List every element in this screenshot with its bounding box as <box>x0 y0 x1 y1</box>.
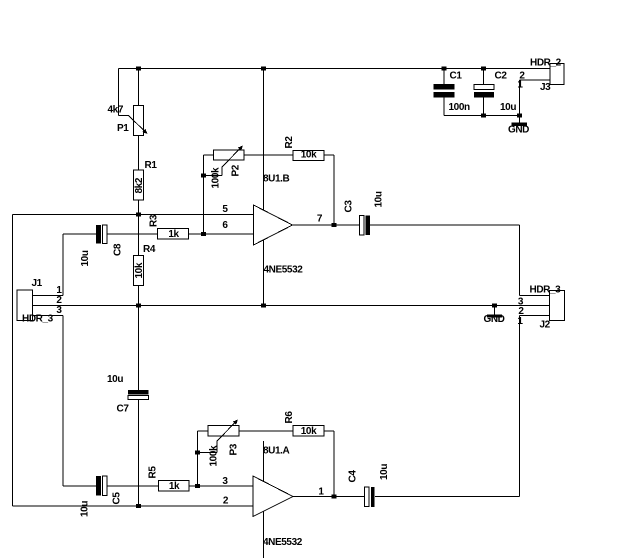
wire C1 bottom stub <box>443 98 445 116</box>
wire J3 pin1 drop to ground <box>519 80 521 123</box>
J2 pin 3 label <box>518 297 524 308</box>
resistor R2 <box>284 136 324 161</box>
svg-text:100n: 100n <box>449 102 470 113</box>
wire P3 to R6 <box>239 430 293 432</box>
wire R1 bottom to R4 top <box>138 200 140 256</box>
J2 pin 1 label <box>517 316 523 327</box>
J2 pin 2 label <box>518 306 524 317</box>
wire C5 to R5 <box>108 485 159 487</box>
junction top rail / C2 <box>481 66 486 70</box>
junction top rail / U1.B power <box>261 66 266 70</box>
junction pin2 wire / C7 <box>136 504 141 508</box>
pin 5 label <box>222 204 228 215</box>
svg-text:C7: C7 <box>117 404 130 415</box>
svg-text:P1: P1 <box>117 123 129 134</box>
svg-text:C1: C1 <box>450 71 463 82</box>
resistor R5 <box>148 466 190 492</box>
wire C4 to right corner <box>375 496 520 498</box>
junction top rail / C1 <box>442 66 447 70</box>
resistor R4 <box>134 244 156 286</box>
wire R3 to U1.B pin6 <box>189 233 254 235</box>
wire J1 pin3 stub <box>33 315 64 317</box>
ground top <box>508 123 529 136</box>
wire riser to J2 pin1 <box>519 316 521 497</box>
wire C8 to R3 <box>108 233 158 235</box>
wire P3 wiper to left rail <box>198 452 218 454</box>
junction P2 wiper <box>201 173 206 177</box>
wire R5 to U1.A pin3 <box>189 485 253 487</box>
wire R2 to feedback corner <box>324 154 335 156</box>
wire P2 wiper vertical <box>221 167 223 176</box>
pin 7 label <box>317 214 323 225</box>
junction mid rail / U1.B power <box>261 303 266 307</box>
connector J3 HDR_2 <box>530 58 564 94</box>
wire to C5 left plate <box>63 485 96 487</box>
wire J1 pin1 riser <box>62 234 64 296</box>
capacitor C2 <box>474 71 516 114</box>
wire left vertical rail <box>12 215 14 507</box>
wire P2 wiper to left rail <box>204 175 223 177</box>
wire J2 pin1 stub <box>520 315 550 317</box>
J3 pin 1 label <box>517 80 523 91</box>
resistor R3 <box>149 214 189 240</box>
wire P1 wiper drop <box>118 69 120 116</box>
svg-text:10u: 10u <box>80 250 91 266</box>
svg-text:4NE5532: 4NE5532 <box>264 265 304 276</box>
resistor R6 <box>284 411 324 437</box>
svg-text:P3: P3 <box>229 443 240 455</box>
wire to C8 left plate <box>63 233 96 235</box>
wire C1-C2 ground link <box>444 115 520 117</box>
svg-text:HDR_3: HDR_3 <box>22 314 54 325</box>
junction mid rail / ground <box>492 303 497 307</box>
svg-text:R2: R2 <box>284 136 295 149</box>
capacitor C8 <box>80 225 124 267</box>
svg-text:2: 2 <box>223 496 229 507</box>
pin 6 label <box>222 220 228 231</box>
pin 2 label <box>223 496 229 507</box>
wire R4 bottom to mid rail and C7 top <box>138 286 140 391</box>
svg-text:10k: 10k <box>301 149 317 160</box>
J1 pin 1 label <box>56 285 62 296</box>
svg-text:R5: R5 <box>148 466 159 479</box>
svg-text:100k: 100k <box>211 167 222 188</box>
svg-text:GND: GND <box>508 125 529 136</box>
junction C2 bottom <box>481 113 486 117</box>
svg-text:C3: C3 <box>344 200 355 213</box>
svg-text:4NE5532: 4NE5532 <box>263 537 303 548</box>
wire P1 bottom to R1 top <box>138 136 140 171</box>
svg-text:R3: R3 <box>149 214 160 227</box>
wire feedback drop to output A <box>333 431 335 497</box>
svg-text:1k: 1k <box>169 481 180 492</box>
wire C7 bottom to U1.A pin2 wire <box>138 400 140 507</box>
pin 1 label <box>318 487 324 498</box>
J1 pin 2 label <box>56 295 62 306</box>
svg-text:100k: 100k <box>209 445 220 466</box>
wire feedback drop to output <box>333 155 335 225</box>
wire U1.A power rail pin8 to pin4 <box>263 441 265 558</box>
svg-text:6: 6 <box>222 220 228 231</box>
wire drop to J2 pin3 <box>519 225 521 296</box>
svg-text:10u: 10u <box>107 374 123 385</box>
svg-text:C5: C5 <box>112 492 123 505</box>
J3 pin 2 label <box>519 71 525 82</box>
junction P3 wiper <box>195 450 200 454</box>
svg-text:5: 5 <box>222 204 228 215</box>
wire C3 to right corner <box>370 224 520 226</box>
svg-text:R1: R1 <box>145 160 158 171</box>
op-amp U1.A <box>253 446 303 549</box>
svg-text:1: 1 <box>517 80 523 91</box>
svg-text:C4: C4 <box>348 470 359 483</box>
wire U1.B pin5 input <box>13 214 254 216</box>
wire U1.B power rail pin8 to pin4 <box>263 69 265 306</box>
svg-text:GND: GND <box>483 314 504 325</box>
wire J1 pin3 dropper <box>62 316 64 487</box>
wire U1.B output to C3 <box>293 224 360 226</box>
wire J3 pin1 stub <box>520 79 551 81</box>
resistor R1 <box>134 160 158 200</box>
potentiometer P3 <box>208 420 240 467</box>
svg-text:4k7: 4k7 <box>108 105 124 116</box>
wire U1.A pin2 input <box>13 505 254 507</box>
wire P1 wiper horizontal <box>119 115 129 117</box>
capacitor C7 <box>107 374 149 415</box>
wire C1 top stub <box>443 69 445 85</box>
J1 pin 3 label <box>56 305 62 316</box>
connector J1 HDR_3 <box>17 278 54 325</box>
junction ground link / J3 pin1 <box>517 113 522 117</box>
svg-text:10k: 10k <box>301 426 317 437</box>
potentiometer P2 <box>211 146 245 189</box>
capacitor C4 <box>348 464 391 507</box>
junction P2 / pin6 wire <box>201 232 206 236</box>
svg-text:3: 3 <box>56 305 62 316</box>
wire R6 to feedback corner <box>324 430 334 432</box>
svg-text:8U1.B: 8U1.B <box>263 174 290 185</box>
svg-text:J3: J3 <box>540 82 551 93</box>
svg-text:1: 1 <box>517 316 523 327</box>
wire J1 pin1 stub <box>33 295 64 297</box>
svg-text:J2: J2 <box>540 320 551 331</box>
wire P3 left terminal <box>198 430 209 432</box>
junction mid rail / R4-C7 <box>136 303 141 307</box>
wire C2 bottom stub <box>483 98 485 116</box>
svg-text:1k: 1k <box>168 229 179 240</box>
pin 3 label <box>222 476 228 487</box>
svg-text:3: 3 <box>222 476 228 487</box>
svg-text:10u: 10u <box>80 501 91 517</box>
svg-text:10u: 10u <box>379 464 390 480</box>
wire U1.A output to C4 <box>293 496 365 498</box>
junction P3 / pin3 wire <box>195 484 200 488</box>
svg-text:10k: 10k <box>134 262 145 278</box>
junction top rail / P1 <box>136 66 141 70</box>
wire P2 to R2 <box>244 154 293 156</box>
wire mid ground rail <box>33 305 550 307</box>
wire P2 left terminal <box>204 154 214 156</box>
capacitor C1 <box>434 71 470 114</box>
svg-text:10u: 10u <box>374 191 385 207</box>
wire P2 left drop to pin6 <box>203 155 205 234</box>
junction feedback / output U1.A <box>332 494 337 498</box>
svg-text:HDR_3: HDR_3 <box>530 285 562 296</box>
svg-text:HDR_2: HDR_2 <box>530 58 562 69</box>
svg-text:P2: P2 <box>231 164 242 176</box>
op-amp U1.B <box>254 174 304 276</box>
svg-text:C8: C8 <box>113 243 124 256</box>
wire C2 top stub <box>483 69 485 85</box>
wire mid ground stub <box>494 306 496 315</box>
wire top supply rail <box>119 68 551 70</box>
wire P3 left drop to pin3 <box>197 431 199 486</box>
capacitor C3 <box>344 191 385 235</box>
svg-text:8U1.A: 8U1.A <box>263 446 290 457</box>
svg-text:R4: R4 <box>143 244 156 255</box>
svg-text:1: 1 <box>318 487 324 498</box>
capacitor C5 <box>80 476 123 517</box>
svg-text:R6: R6 <box>284 411 295 424</box>
svg-text:8k2: 8k2 <box>134 177 145 193</box>
svg-text:10u: 10u <box>500 102 516 113</box>
junction pin5 wire / R1-R4 <box>136 212 141 216</box>
svg-text:C2: C2 <box>495 71 508 82</box>
connector J2 HDR_3 <box>530 285 565 331</box>
ground mid <box>483 314 504 325</box>
svg-text:J1: J1 <box>32 278 43 289</box>
wire J2 pin3 stub <box>520 295 550 297</box>
potentiometer P1 <box>108 105 148 136</box>
svg-text:7: 7 <box>317 214 323 225</box>
wire P3 wiper vertical <box>216 441 218 453</box>
junction feedback / output U1.B <box>332 223 337 227</box>
wire top rail to P1 top <box>138 69 140 106</box>
